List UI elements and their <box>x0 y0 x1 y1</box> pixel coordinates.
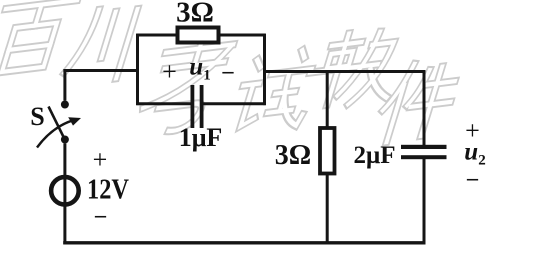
wire right branch lower <box>423 159 426 243</box>
capacitor C1 1uF plates <box>191 85 204 128</box>
wire loop bottom right segment <box>203 102 266 105</box>
switch S blade <box>49 107 65 139</box>
switch S arrow arc <box>37 120 73 147</box>
label minus u1 <box>223 58 234 84</box>
capacitor C2 2uF plates <box>401 145 447 159</box>
wire loop top left segment <box>136 34 175 37</box>
circuit wires <box>63 34 425 244</box>
label 2uF <box>354 142 396 170</box>
switch S terminal bottom <box>61 136 69 144</box>
label minus u2 <box>467 165 478 191</box>
watermark gray outline pass <box>0 0 464 143</box>
wire switch through source to bottom <box>63 144 66 245</box>
label 3ohm top <box>176 0 214 29</box>
switch S arrow head <box>68 117 81 125</box>
wire right branch upper <box>423 70 426 145</box>
label 3ohm mid <box>275 140 311 172</box>
resistor R top 3ohm <box>178 28 219 43</box>
label minus source <box>95 202 106 228</box>
label S <box>30 102 44 132</box>
wire left feed horizontal <box>63 69 138 72</box>
wire mid branch upper <box>326 72 329 127</box>
voltage source circle <box>51 177 79 205</box>
label 1uF <box>179 123 223 153</box>
switch S terminal top <box>61 101 69 109</box>
label u1 <box>189 54 210 85</box>
label 12V <box>87 174 129 207</box>
wire switch branch upper <box>63 69 66 100</box>
wire feed to right <box>263 70 425 73</box>
wire loop right vertical <box>263 34 266 105</box>
wire loop left vertical <box>136 34 139 105</box>
label u2 <box>464 138 485 169</box>
label plus u1 <box>162 57 177 87</box>
label plus u2 <box>465 116 480 146</box>
label plus source <box>93 145 108 175</box>
wire loop bottom left segment <box>136 102 191 105</box>
wire mid branch lower <box>326 175 329 243</box>
wire bottom <box>63 241 425 244</box>
resistor R mid 3ohm <box>320 128 335 174</box>
wire loop top right segment <box>221 34 266 37</box>
watermark white core pass <box>0 0 464 143</box>
